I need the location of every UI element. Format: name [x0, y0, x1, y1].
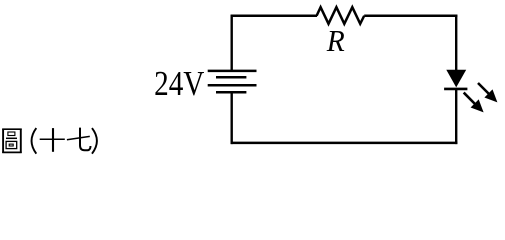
LED light arrow 2 head [471, 99, 484, 112]
wire left lower segment [230, 92, 232, 144]
LED light arrow 2 shaft [464, 93, 476, 105]
svg-text:24V: 24V [154, 64, 204, 103]
label figure caption: char 圖 outer box [2, 129, 4, 153]
battery B1 plate 4 (short) [216, 91, 246, 94]
char 十 horizontal stroke [40, 138, 65, 140]
wire right vertical lower [455, 89, 457, 144]
char 圖 middle bar [6, 137, 17, 139]
battery B1 plate 1 (long) [208, 70, 257, 73]
wire right vertical upper [455, 15, 457, 71]
LED light arrow 1 shaft [478, 83, 490, 95]
paren right [92, 128, 97, 154]
wire left upper segment [230, 15, 232, 71]
battery B1 plate 2 (short) [216, 76, 246, 79]
battery B1 plate 3 (long) [208, 84, 257, 87]
LED D1 cathode bar [444, 88, 467, 91]
char 七 horizontal stroke [67, 136, 90, 139]
LED light arrow 1 head [484, 89, 497, 102]
svg-text:R: R [326, 24, 345, 58]
wire bottom [231, 142, 458, 145]
char 圖 bottom inner box [9, 144, 13, 146]
wire top-left segment [231, 15, 317, 17]
wire top-right segment [364, 15, 457, 17]
char 圖 bottom outer box [6, 141, 17, 148]
LED D1 triangle [446, 70, 466, 88]
char 圖 inner top box [8, 132, 15, 136]
resistor R [317, 7, 365, 24]
char 七 vertical-hook stroke [80, 128, 91, 151]
char 十 vertical stroke [52, 128, 54, 152]
paren left [32, 128, 37, 154]
